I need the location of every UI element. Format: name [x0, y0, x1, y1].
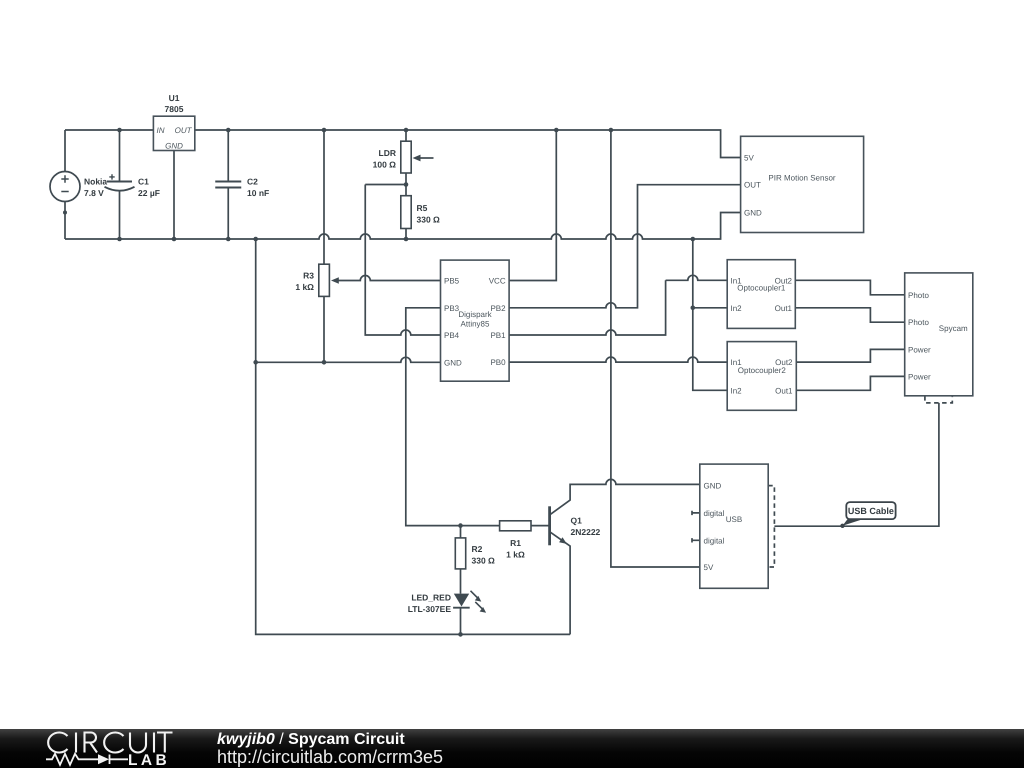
svg-text:22 µF: 22 µF — [138, 188, 160, 198]
svg-text:U1: U1 — [169, 93, 180, 103]
svg-text:Nokia: Nokia — [84, 177, 107, 187]
svg-text:LAB: LAB — [128, 752, 170, 768]
svg-text:digital: digital — [704, 536, 725, 545]
svg-text:Optocoupler2: Optocoupler2 — [738, 366, 787, 375]
svg-text:Power: Power — [908, 345, 931, 354]
svg-text:GND: GND — [744, 209, 762, 218]
svg-text:Optocoupler1: Optocoupler1 — [737, 283, 786, 292]
svg-text:Spycam: Spycam — [939, 324, 968, 333]
svg-text:7.8 V: 7.8 V — [84, 188, 104, 198]
svg-text:PB2: PB2 — [490, 304, 506, 313]
svg-text:USB: USB — [726, 515, 742, 524]
svg-text:PB1: PB1 — [490, 331, 506, 340]
svg-text:5V: 5V — [704, 563, 714, 572]
svg-text:Q1: Q1 — [571, 516, 583, 526]
svg-text:IN: IN — [157, 126, 165, 135]
svg-text:330 Ω: 330 Ω — [417, 215, 441, 225]
svg-text:PB4: PB4 — [444, 331, 460, 340]
svg-text:USB Cable: USB Cable — [848, 506, 894, 516]
svg-text:In2: In2 — [731, 304, 743, 313]
svg-text:Attiny85: Attiny85 — [461, 320, 490, 329]
svg-text:10 nF: 10 nF — [247, 188, 269, 198]
svg-text:Photo: Photo — [908, 291, 929, 300]
svg-text:5V: 5V — [744, 154, 754, 163]
svg-text:OUT: OUT — [175, 126, 193, 135]
svg-text:R1: R1 — [510, 538, 521, 548]
svg-text:LDR: LDR — [379, 148, 396, 158]
svg-text:In2: In2 — [731, 386, 743, 395]
svg-text:PB3: PB3 — [444, 304, 460, 313]
svg-text:LED_RED: LED_RED — [411, 593, 451, 603]
svg-text:GND: GND — [704, 482, 722, 491]
svg-text:1 kΩ: 1 kΩ — [506, 550, 525, 560]
svg-text:LTL-307EE: LTL-307EE — [408, 604, 452, 614]
svg-text:Power: Power — [908, 372, 931, 381]
svg-text:7805: 7805 — [165, 104, 184, 114]
svg-text:GND: GND — [444, 358, 462, 367]
svg-text:VCC: VCC — [489, 277, 506, 286]
svg-text:Out1: Out1 — [775, 304, 793, 313]
svg-text:digital: digital — [704, 509, 725, 518]
svg-text:PB5: PB5 — [444, 277, 460, 286]
svg-text:100 Ω: 100 Ω — [373, 160, 397, 170]
svg-text:R5: R5 — [417, 203, 428, 213]
svg-text:PIR Motion Sensor: PIR Motion Sensor — [768, 174, 835, 183]
svg-text:GND: GND — [165, 142, 183, 151]
svg-text:2N2222: 2N2222 — [571, 527, 601, 537]
svg-text:C2: C2 — [247, 177, 258, 187]
svg-text:PB0: PB0 — [490, 358, 506, 367]
svg-text:330 Ω: 330 Ω — [472, 556, 496, 566]
svg-text:R3: R3 — [303, 271, 314, 281]
svg-text:OUT: OUT — [744, 181, 761, 190]
svg-text:Photo: Photo — [908, 318, 929, 327]
svg-text:C1: C1 — [138, 177, 149, 187]
svg-text:R2: R2 — [472, 544, 483, 554]
svg-text:Digispark: Digispark — [458, 310, 492, 319]
svg-text:1 kΩ: 1 kΩ — [295, 282, 314, 292]
svg-text:Out1: Out1 — [775, 386, 793, 395]
